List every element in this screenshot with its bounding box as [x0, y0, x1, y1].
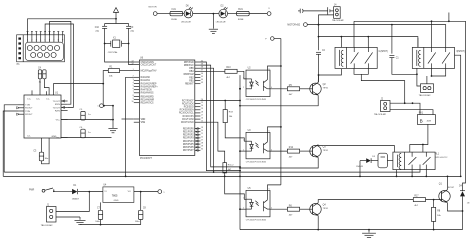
capacitor C2 snubber relay K1	[316, 25, 326, 83]
svg-text:30: 30	[201, 149, 203, 151]
svg-text:20: 20	[201, 130, 203, 132]
svg-text:1N4007: 1N4007	[72, 199, 80, 201]
svg-text:RD2/PSP2: RD2/PSP2	[183, 135, 194, 137]
svg-text:1: 1	[243, 198, 244, 200]
terminal MOTOR	[149, 6, 171, 15]
svg-text:21: 21	[201, 133, 203, 135]
svg-text:1: 1	[243, 77, 244, 79]
diode D1	[72, 185, 103, 200]
svg-text:RB3/PGM: RB3/PGM	[184, 74, 194, 76]
svg-text:18: 18	[201, 111, 203, 113]
wire relay K2 coil bottom to TBLOCK J6	[416, 68, 421, 86]
svg-text:CPC5001/PC923 4N35: CPC5001/PC923 4N35	[246, 99, 266, 101]
svg-text:RA2/AN2/VREF-: RA2/AN2/VREF-	[141, 82, 158, 85]
svg-text:PV1: PV1	[419, 113, 424, 115]
svg-text:PWR: PWR	[29, 189, 35, 191]
capacitor C5	[61, 109, 114, 120]
resistor R8	[432, 200, 442, 231]
svg-text:CPC5001/PC923 4N35: CPC5001/PC923 4N35	[246, 219, 266, 221]
svg-text:RC1/T1OSI: RC1/T1OSI	[182, 119, 194, 121]
resistor R11 (RC0 to opto U5 input)	[200, 122, 246, 199]
svg-text:TBLOCK-M2: TBLOCK-M2	[41, 225, 54, 227]
svg-text:5: 5	[133, 85, 134, 87]
LED D6	[181, 6, 219, 24]
svg-text:RB2: RB2	[189, 77, 194, 79]
svg-text:R17: R17	[414, 196, 419, 198]
svg-text:RB5: RB5	[189, 68, 194, 70]
svg-text:8: 8	[58, 40, 59, 42]
svg-text:RB6/PGC: RB6/PGC	[184, 65, 194, 67]
LED D2	[216, 6, 237, 24]
wire from DB9 pin 1 up to top-left power node	[28, 19, 117, 35]
wire Q2 emitter to ground bus	[240, 95, 318, 106]
pull-up bus vertical	[280, 39, 282, 185]
resistor R5	[270, 85, 313, 96]
connector J6 TBLOCK-M2	[419, 84, 434, 97]
svg-text:RA5/AN4/SS: RA5/AN4/SS	[141, 92, 154, 95]
svg-text:100u: 100u	[95, 221, 99, 223]
svg-text:TBLOCK-M2: TBLOCK-M2	[374, 114, 387, 116]
svg-text:RC6/TX/CK: RC6/TX/CK	[182, 103, 194, 105]
wire RB6 to ground bus	[200, 65, 241, 168]
svg-text:R11.2: R11.2	[228, 165, 234, 167]
svg-text:5: 5	[45, 40, 46, 42]
wire Q3 collector to relay RL1 coil	[318, 146, 394, 153]
diode D4	[459, 185, 470, 229]
crystal X1	[104, 38, 130, 54]
wire J1 pin 1 riser	[56, 192, 89, 212]
svg-text:16: 16	[201, 118, 203, 120]
capacitor C3	[33, 138, 49, 164]
svg-text:C1-: C1-	[46, 98, 50, 100]
transistor Q1	[439, 184, 455, 203]
capacitor C6 across RL1 coil	[378, 153, 393, 168]
opto U3 CPC5001	[243, 130, 272, 163]
svg-text:1: 1	[133, 69, 134, 71]
svg-text:1N4148: 1N4148	[356, 166, 363, 168]
ground at bottom rail	[362, 229, 376, 238]
wire MCLR node down to terminal wire	[102, 84, 104, 106]
svg-text:RE1/AN6/WR: RE1/AN6/WR	[141, 98, 155, 101]
bottom ground rail	[240, 229, 463, 231]
svg-text:T1OUT: T1OUT	[53, 101, 61, 103]
capacitor C6	[61, 127, 112, 138]
svg-text:RA0/AN0: RA0/AN0	[141, 76, 151, 79]
fuse FU1	[170, 9, 184, 21]
terminal after BU1	[267, 8, 271, 15]
svg-text:GND: GND	[114, 200, 119, 202]
node U2 input junction	[239, 88, 241, 90]
svg-text:5: 5	[269, 68, 270, 70]
wire Q3 collector	[317, 144, 319, 147]
wire MAX232 VCC rail to MCLR node	[32, 83, 104, 95]
relay K1	[335, 37, 388, 69]
IC U1 MAX232	[17, 92, 68, 140]
svg-text:CRYSTAL: CRYSTAL	[108, 51, 119, 54]
+5V label at VDD pin	[110, 119, 134, 121]
svg-text:14: 14	[132, 63, 134, 65]
svg-text:MCLR/Vpp/THV: MCLR/Vpp/THV	[141, 70, 157, 72]
terminal +5V output	[158, 190, 165, 194]
svg-text:T2OUT: T2OUT	[53, 107, 61, 109]
svg-text:7: 7	[133, 91, 134, 93]
svg-text:T1IN: T1IN	[25, 105, 30, 107]
wire U5 cathode to bus	[240, 208, 246, 210]
wire Q4 emitter to bottom rail	[317, 216, 319, 231]
svg-text:RD6/PSP6: RD6/PSP6	[183, 147, 194, 149]
wire relay RL1 pins to bottom rail	[396, 170, 428, 178]
svg-text:RB7/PGD: RB7/PGD	[184, 62, 194, 64]
svg-text:RD5/PSP5: RD5/PSP5	[183, 144, 194, 146]
wire relay K1 contact 1 to upper rail	[353, 21, 355, 47]
diode D5 freewheel	[356, 156, 378, 177]
resistor R6	[270, 205, 313, 216]
svg-text:RA3/AN3/VREF+: RA3/AN3/VREF+	[141, 85, 159, 88]
svg-text:2: 2	[243, 87, 244, 89]
svg-text:TBLOCK-M2: TBLOCK-M2	[332, 20, 344, 22]
svg-text:RD3/PSP3: RD3/PSP3	[183, 138, 194, 140]
svg-text:RC5/SDO: RC5/SDO	[184, 107, 194, 109]
svg-text:R13: R13	[226, 67, 231, 69]
capacitor C7	[95, 202, 102, 225]
regulator U4 7805	[103, 185, 158, 203]
svg-text:RD1/PSP1: RD1/PSP1	[183, 132, 194, 134]
svg-text:8: 8	[133, 95, 134, 97]
ground at power input	[74, 217, 140, 225]
wire relay K2 contact 1 to upper rail	[431, 21, 433, 47]
capacitor C9	[126, 24, 135, 44]
wire relay K1 contacts bottom	[354, 68, 406, 104]
svg-text:RB4: RB4	[189, 71, 194, 73]
wire relay K1 coil bottom to Q2 collector	[319, 69, 342, 75]
svg-text:23: 23	[201, 108, 203, 110]
svg-text:1: 1	[243, 140, 244, 142]
wire relay K2 contacts bottom to J6	[427, 68, 446, 83]
resistor R13	[200, 67, 246, 79]
svg-text:RE2/AN7/CS: RE2/AN7/CS	[141, 102, 154, 105]
wire Q1 collector to rail	[447, 176, 449, 190]
transistor Q2 TIP41	[310, 82, 329, 95]
wire MAX232 T2IN to left loop	[3, 111, 18, 176]
svg-text:RC4/SDI/SDA: RC4/SDI/SDA	[180, 109, 194, 112]
svg-text:MOTOR+B2: MOTOR+B2	[287, 25, 300, 27]
wire crystal right to OSC2	[129, 44, 134, 65]
connector J4	[332, 5, 344, 22]
svg-text:17: 17	[201, 114, 203, 116]
svg-text:RC2/CCP1: RC2/CCP1	[183, 116, 195, 118]
svg-text:3: 3	[36, 40, 37, 42]
svg-text:MOTOR: MOTOR	[149, 6, 157, 8]
svg-text:27: 27	[201, 139, 203, 141]
transistor Q4 TIP41	[310, 203, 329, 216]
fuse BU1	[237, 9, 268, 21]
power flag arrow (top-left)	[113, 8, 118, 20]
resistor R1 (MCLR pull-up)	[103, 67, 134, 84]
wire Q3 emitter to ground bus	[240, 158, 318, 169]
svg-text:5: 5	[269, 189, 270, 191]
svg-text:3: 3	[133, 79, 134, 81]
svg-text:LED-BLUE: LED-BLUE	[181, 22, 192, 24]
svg-text:RD0/PSP0: RD0/PSP0	[183, 128, 194, 130]
wire opto U2 pull-up	[268, 66, 281, 70]
svg-text:34: 34	[201, 79, 203, 81]
wire MAX232 T1IN to left loop	[4, 105, 18, 172]
wire relay K2 common to bottom rail B	[454, 55, 461, 177]
svg-text:1: 1	[27, 40, 28, 42]
connector J2 TBLOCK-M2	[374, 98, 390, 116]
svg-text:R12: R12	[289, 147, 294, 149]
svg-text:TIP41: TIP41	[323, 150, 329, 152]
svg-text:RC3/SCK/SCL: RC3/SCK/SCL	[179, 113, 194, 115]
wire J1 pin 2 to ground	[56, 216, 80, 218]
svg-text:33: 33	[201, 82, 203, 84]
wire J2 pin 1 to lamp PV1	[390, 102, 420, 114]
svg-text:RE0/AN5/RD: RE0/AN5/RD	[141, 95, 154, 98]
svg-text:OSC2/CLKOUT: OSC2/CLKOUT	[141, 64, 157, 66]
svg-text:7805: 7805	[112, 195, 118, 198]
svg-text:19: 19	[201, 127, 203, 129]
ground bus vertical	[239, 75, 241, 230]
svg-text:C2-: C2-	[27, 136, 31, 138]
svg-text:35: 35	[201, 76, 203, 78]
svg-text:FUSE: FUSE	[238, 19, 244, 21]
wire power node down to crystal cap rail	[105, 19, 129, 24]
svg-text:2: 2	[31, 40, 32, 42]
wire RC7 to bus	[200, 100, 241, 102]
svg-text:RB0/INT: RB0/INT	[185, 84, 194, 86]
wire RB5 to bottom rail A	[200, 68, 214, 173]
svg-text:R1OUT: R1OUT	[25, 108, 33, 110]
transistor Q3 TIP41	[310, 145, 329, 158]
svg-text:T2IN: T2IN	[25, 111, 30, 113]
svg-text:100u: 100u	[135, 221, 139, 223]
svg-text:VSS: VSS	[141, 122, 146, 124]
capacitor C1 snubber relay K2	[389, 25, 417, 75]
svg-text:24: 24	[201, 105, 203, 107]
svg-text:CPC5001/PC923 4N35: CPC5001/PC923 4N35	[246, 161, 266, 163]
svg-text:GND: GND	[52, 136, 57, 138]
wire Q1 emitter	[447, 203, 462, 211]
svg-text:IL(SPDT): IL(SPDT)	[379, 51, 389, 53]
capacitor C10	[95, 24, 107, 44]
wire J4 pin 2 down to +12V rail	[318, 15, 334, 26]
wire crystal left to OSC1	[105, 44, 134, 63]
svg-text:29: 29	[201, 146, 203, 148]
svg-text:R2IN: R2IN	[55, 111, 60, 113]
opto U5 CPC5001	[243, 188, 272, 221]
wire Q4 collector to Q1 base	[318, 200, 413, 203]
wire DB9 pin 5 to MAX232 R2IN	[45, 24, 73, 107]
lamp PV1	[417, 113, 435, 125]
resistor R17	[413, 196, 441, 207]
svg-text:RD7/PSP7: RD7/PSP7	[183, 150, 194, 152]
svg-text:RC7/RX/DT: RC7/RX/DT	[182, 100, 194, 102]
svg-text:7: 7	[53, 40, 54, 42]
svg-text:BC547: BC547	[448, 187, 455, 189]
connector P1 DB9 COMPIM	[17, 32, 65, 66]
svg-text:36: 36	[201, 73, 203, 75]
wire U3 pull-up to bus	[268, 127, 281, 132]
svg-text:RB1: RB1	[189, 80, 194, 82]
relay K2	[412, 38, 465, 68]
wire U5 pull-up to bus	[268, 185, 281, 191]
svg-text:TBLOCK-M2: TBLOCK-M2	[419, 95, 432, 97]
svg-text:RC0/T1OSO: RC0/T1OSO	[181, 122, 194, 124]
wire Q2 collector	[317, 75, 319, 82]
svg-text:FUSE: FUSE	[171, 19, 177, 21]
svg-text:VS+: VS+	[56, 120, 61, 122]
coil supply rail	[318, 36, 418, 48]
svg-text:RD4/PSP4: RD4/PSP4	[183, 141, 194, 143]
svg-text:LED-BLUE: LED-BLUE	[216, 22, 227, 24]
wire U3 cathode to bus	[240, 150, 246, 152]
svg-text:9: 9	[133, 98, 134, 100]
svg-text:G2R-14-DC12: G2R-14-DC12	[435, 157, 447, 159]
capacitor C8	[135, 192, 147, 225]
svg-text:VDD: VDD	[141, 119, 146, 121]
svg-text:PIC16F877: PIC16F877	[140, 157, 153, 160]
rail bottom A	[4, 165, 420, 173]
svg-text:RA4/T0CKI: RA4/T0CKI	[141, 89, 153, 92]
svg-text:4: 4	[133, 82, 134, 84]
connector J1 TBLOCK-M2	[41, 204, 56, 226]
svg-text:VS-: VS-	[56, 138, 60, 140]
svg-text:9: 9	[62, 40, 63, 42]
svg-text:TIP41: TIP41	[323, 88, 329, 90]
svg-text:22: 22	[201, 136, 203, 138]
opto U2 CPC5001	[243, 68, 272, 101]
wire RB7 to ground bus	[200, 62, 241, 172]
terminal MOTOR+B2 and +12V rail	[287, 23, 445, 48]
svg-text:4: 4	[40, 40, 41, 42]
svg-text:TIP41: TIP41	[323, 208, 329, 210]
capacitor C4	[38, 68, 49, 95]
ground below C5	[108, 129, 117, 133]
wire RA0 down to bottom rail	[125, 77, 134, 177]
terminal F	[265, 37, 281, 41]
svg-text:RA1/AN1: RA1/AN1	[141, 79, 151, 82]
svg-text:+5V: +5V	[110, 119, 114, 121]
IC U6 PIC16F877 microcontroller	[132, 57, 203, 161]
svg-text:VO: VO	[128, 191, 131, 193]
svg-text:R2OUT: R2OUT	[25, 114, 33, 116]
rail bottom B	[3, 176, 461, 178]
resistor R18 (RC7 to opto U3 input)	[223, 100, 246, 142]
svg-text:B: B	[420, 118, 423, 123]
svg-text:28: 28	[201, 143, 203, 145]
battery B1	[298, 7, 334, 14]
svg-text:3(SPDT): 3(SPDT)	[456, 51, 465, 53]
wire DB9 pin 6 to MAX232 R1IN	[50, 22, 71, 105]
relay RL1	[393, 152, 447, 170]
svg-text:BU1: BU1	[238, 9, 243, 11]
svg-text:10: 10	[132, 101, 134, 103]
wire J2 pin 2 to lamp PV1	[390, 110, 433, 115]
svg-text:25: 25	[201, 102, 203, 104]
wire PV1 to relay RL1 contact	[410, 124, 428, 152]
switch PWR	[29, 188, 72, 192]
rail upper to D4 branch	[354, 13, 466, 191]
svg-text:5: 5	[269, 131, 270, 133]
terminal +5V near MAX232	[97, 104, 114, 128]
svg-text:R1IN: R1IN	[55, 104, 60, 106]
ground below LEDs	[209, 14, 218, 34]
svg-text:6: 6	[133, 88, 134, 90]
svg-text:6: 6	[49, 40, 50, 42]
resistor R12	[270, 147, 313, 158]
